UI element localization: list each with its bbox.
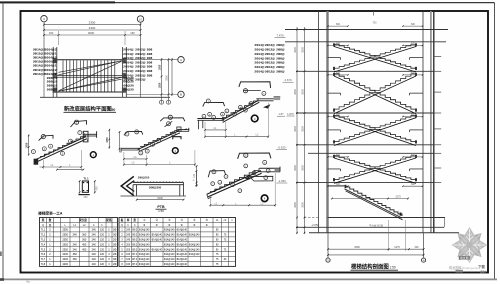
svg-text:Φ7.4: Φ7.4 [132, 263, 138, 266]
detail D1 start circle [31, 150, 35, 154]
detail D3 left leader circle [206, 99, 210, 103]
svg-text:Φ14@140: Φ14@140 [151, 234, 162, 237]
section right wall stubs [434, 56, 441, 58]
section landing line bottom [328, 217, 446, 219]
detail D2 mid leader bar [165, 121, 173, 127]
svg-text:1650: 1650 [106, 137, 109, 143]
svg-text:600: 600 [411, 183, 416, 186]
detail D2 top leader circle [168, 115, 172, 119]
table1 grid [40, 218, 118, 267]
detail D4 under-landing wedge [249, 176, 273, 181]
detail D2 bar circles [139, 151, 143, 155]
svg-text:2800: 2800 [294, 89, 297, 95]
section floor line level 4a [296, 144, 434, 146]
beam section TL rect [82, 181, 88, 192]
plan treads [62, 60, 64, 91]
detail D3 landing beam stub gray [274, 97, 281, 100]
svg-text:2800: 2800 [294, 202, 297, 208]
svg-text:120: 120 [100, 258, 105, 261]
svg-text:120: 120 [100, 253, 105, 256]
outer border bottom gray strip [0, 278, 497, 280]
detail D2 landing beam rect [177, 127, 181, 131]
detail D3 second leader bar [243, 90, 261, 92]
svg-text:Φ14@140: Φ14@140 [164, 253, 175, 256]
svg-text:2Φ12@: 2Φ12@ [135, 78, 145, 82]
PTB bottom line [121, 195, 187, 197]
svg-text:Φ: Φ [181, 224, 183, 227]
detail D2 top landing slab [177, 129, 189, 131]
svg-text:Φ14@140: Φ14@140 [139, 239, 150, 242]
section tread dim stub right [403, 116, 423, 118]
detail D1 top leader bar [71, 121, 87, 127]
plan right dim small circle b [167, 100, 171, 104]
svg-text:梁长度: 梁长度 [78, 218, 87, 222]
svg-text:1:50: 1:50 [109, 108, 116, 112]
section floor line level 1 [285, 29, 448, 31]
detail D4 bold detail circle [261, 195, 268, 202]
plan column blocks [53, 58, 58, 63]
svg-text:3300: 3300 [89, 21, 96, 25]
section tread dim stub left [328, 25, 348, 27]
svg-text:120: 120 [100, 239, 105, 242]
section grid extension left [327, 233, 329, 258]
svg-text:600: 600 [336, 23, 341, 26]
svg-text:2800: 2800 [301, 47, 304, 53]
section bottom long flight sawtooth [346, 187, 402, 216]
detail D4 wedge arrowhead [245, 177, 250, 180]
svg-text:240: 240 [92, 239, 97, 242]
section ground line a [296, 226, 444, 228]
plan right vertical dim line c [171, 58, 173, 96]
svg-text:340: 340 [415, 246, 420, 249]
detail D2 left vertical dim [119, 132, 121, 153]
detail D2 dim line long [124, 164, 195, 166]
detail D4 left leader circle [212, 170, 216, 174]
detail D2 dim extensions [123, 152, 125, 166]
svg-text:240: 240 [92, 243, 97, 246]
section tread dim stub left [328, 74, 348, 76]
svg-text:600: 600 [336, 42, 341, 45]
section stair flight storey4 down-left [334, 156, 416, 181]
svg-text:Φ14@140: Φ14@140 [189, 234, 200, 237]
detail D3 dim line long [205, 136, 268, 138]
svg-text:Φ14@140: Φ14@140 [139, 243, 150, 246]
detail D3 dim extensions [204, 122, 206, 138]
svg-text:3Φ: 3Φ [113, 243, 116, 246]
detail D4 top leader bar [238, 153, 271, 159]
plan dim extension line a [58, 31, 60, 45]
detail D1 landing beam [83, 131, 88, 142]
svg-text:600: 600 [411, 23, 416, 26]
detail D3 cut arrowhead [263, 104, 270, 108]
PTB right support [179, 185, 181, 196]
svg-text:360: 360 [73, 258, 78, 261]
svg-text:Φ14@140: Φ14@140 [164, 234, 175, 237]
outer border right [494, 3, 496, 279]
svg-text:240: 240 [73, 243, 78, 246]
svg-text:3Φ: 3Φ [113, 229, 116, 232]
detail D3 left landing supports [198, 120, 200, 129]
detail D2 flight sawtooth [140, 129, 179, 147]
plan dimension line 1 [44, 24, 141, 26]
beam section TL right dim [94, 181, 96, 193]
svg-text:2550: 2550 [62, 248, 68, 251]
svg-text:Φ14@140: Φ14@140 [176, 234, 187, 237]
section top tick [373, 11, 375, 16]
svg-text:Φ14@140: Φ14@140 [176, 248, 187, 251]
detail D4 dim extensions [209, 198, 211, 207]
svg-text:2Φ8@200: 2Φ8@200 [138, 177, 150, 180]
detail D3 left landing slab [197, 118, 224, 120]
beam section TL bottom dim [79, 194, 90, 196]
svg-text:150: 150 [49, 31, 54, 35]
svg-text:120: 120 [100, 248, 105, 251]
svg-text:楼梯结构剖面图: 楼梯结构剖面图 [351, 262, 389, 270]
svg-text:Φ14@140: Φ14@140 [164, 248, 175, 251]
svg-text:3Φ: 3Φ [113, 234, 116, 237]
section flight storey1 end hooks [333, 43, 335, 46]
svg-text:TL1: TL1 [83, 176, 89, 180]
svg-text:Φ14@140: Φ14@140 [164, 229, 175, 232]
section ground line b [309, 232, 459, 234]
detail D1 bar circles [42, 147, 46, 151]
section stair flight storey4 down-right [334, 156, 416, 181]
svg-text:2Φ8@2: 2Φ8@2 [47, 88, 58, 92]
section tread dim stub right [403, 74, 423, 76]
svg-text:1650: 1650 [372, 57, 378, 60]
plan break diagonal upper 2 [59, 62, 119, 73]
svg-text:Φ14@140: Φ14@140 [189, 248, 200, 251]
svg-text:3300: 3300 [157, 196, 163, 200]
svg-text:240: 240 [73, 234, 78, 237]
plan grid line right [140, 22, 142, 97]
svg-text:Φ14@140: Φ14@140 [164, 258, 175, 261]
detail D4 left vertical dim [195, 171, 197, 186]
detail D3 bold detail circle [251, 115, 258, 122]
svg-text:240: 240 [92, 234, 97, 237]
svg-text:1275: 1275 [395, 196, 401, 199]
plan break diagonal lower 2 [62, 79, 122, 90]
svg-text:Φ14@140: Φ14@140 [164, 243, 175, 246]
section tread dim stub left [328, 185, 348, 187]
section title underline [351, 269, 399, 271]
svg-text:Φ14@140: Φ14@140 [176, 253, 187, 256]
svg-text:TL8: TL8 [41, 263, 46, 266]
detail D3 top landing slab [256, 98, 273, 100]
section bottom flight hooks [345, 185, 347, 188]
section tread dim stub left [328, 116, 348, 118]
detail D1 landing end hook [96, 131, 98, 138]
detail D1 top leader circle [75, 120, 79, 124]
detail D2 left leader bar [124, 131, 143, 135]
section tread dim stub right [403, 156, 423, 158]
detail D1 left leader circle [41, 135, 45, 139]
svg-text:600: 600 [411, 72, 416, 75]
detail D1 left leader bar [39, 135, 53, 140]
plan dim extension line b [124, 31, 126, 45]
svg-text:Φ: Φ [143, 224, 145, 227]
svg-text:Φ14@140: Φ14@140 [139, 263, 150, 266]
plan break diagonal upper 1 [59, 61, 122, 75]
plan right vertical dim line a [161, 58, 163, 104]
detail D2 landing end hook [188, 128, 190, 132]
svg-text:Φ14@140: Φ14@140 [176, 229, 187, 232]
PTB title underline [156, 208, 167, 210]
svg-text:3000: 3000 [88, 31, 95, 35]
plan stairwell middle lines [57, 75, 123, 77]
detail D2 mid leader circle [167, 122, 171, 126]
svg-text:3Φ8@200: 3Φ8@200 [149, 186, 162, 190]
section mid landing lines storey2 [328, 92, 341, 94]
detail D3 leader circle b [262, 91, 266, 95]
section stair flight storey3 down-left [334, 116, 416, 144]
plan dimension line 2 [44, 29, 141, 31]
svg-text:厚: 厚 [127, 218, 130, 222]
plan grid line A to bubble [127, 59, 178, 61]
plan grid bubble A [178, 57, 184, 63]
svg-text:A: A [180, 58, 182, 62]
svg-text:2550: 2550 [357, 196, 363, 199]
svg-text:240: 240 [92, 248, 97, 251]
section bottom flight start landing [328, 185, 347, 187]
svg-text:Φ14@140: Φ14@140 [139, 258, 150, 261]
svg-text:Φ: Φ [168, 224, 170, 227]
svg-text:240: 240 [92, 258, 97, 261]
svg-text:Φ14@140: Φ14@140 [164, 239, 175, 242]
svg-text:150: 150 [130, 31, 135, 35]
plan left wall lines [52, 47, 54, 97]
section floor line level 4b [308, 152, 434, 154]
beam section TL corner bars [83, 182, 84, 183]
plan break diagonal lower 1 [59, 77, 122, 91]
svg-text:Φ14@140: Φ14@140 [189, 243, 200, 246]
svg-text:240: 240 [92, 263, 97, 266]
svg-text:3Φ: 3Φ [113, 248, 116, 251]
svg-text:Φ9.2: Φ9.2 [132, 248, 138, 251]
detail D4 top landing slab [260, 167, 281, 169]
svg-text:120: 120 [100, 229, 105, 232]
detail D4 landing end hook [279, 167, 281, 172]
section mid landing lines storey4 [328, 168, 341, 170]
svg-text:600: 600 [411, 114, 416, 117]
svg-text:450: 450 [82, 243, 87, 246]
svg-text:400: 400 [96, 186, 99, 191]
svg-text:360: 360 [73, 253, 78, 256]
svg-text:Φ14@140: Φ14@140 [139, 234, 150, 237]
svg-text:2550: 2550 [62, 243, 68, 246]
detail D1 flight stringer [36, 137, 86, 160]
detail D4 flight stringer [207, 171, 261, 195]
section stair flight storey2 down-left [334, 74, 416, 112]
PTB break arrow outer [121, 176, 134, 195]
svg-text:Φ14@140: Φ14@140 [176, 243, 187, 246]
svg-text:TL2: TL2 [41, 234, 46, 237]
rebar hook symbol below D2 landing [173, 137, 181, 140]
section roof stub line [285, 41, 446, 43]
plan grid line left [43, 22, 45, 97]
svg-text:2800: 2800 [294, 47, 297, 53]
svg-text:Φ9.2: Φ9.2 [132, 229, 138, 232]
PTB slab top line [133, 181, 184, 183]
section stair flight storey1 down-left [334, 44, 416, 70]
section grid extension right [423, 233, 425, 258]
svg-text:Φ9.2: Φ9.2 [132, 239, 138, 242]
section left wall inner line [318, 11, 320, 233]
svg-text:板: 板 [121, 218, 124, 222]
section mid landing lines storey3 [328, 129, 341, 131]
section floor line level 5 [296, 182, 434, 184]
plan slab top edge [53, 59, 127, 61]
detail D1 flight sawtooth [40, 135, 85, 157]
detail D2 landing arrowhead [184, 128, 187, 129]
svg-text:宽: 宽 [132, 218, 136, 222]
svg-text:3250: 3250 [354, 246, 360, 249]
section flight storey3 end hooks [333, 115, 335, 118]
svg-text:6a: 6a [26, 280, 30, 284]
svg-text:2Φ: 2Φ [113, 253, 116, 256]
plan right wall lines [122, 47, 124, 97]
svg-text:2Φ12@: 2Φ12@ [265, 69, 275, 73]
svg-text:360: 360 [82, 239, 87, 242]
detail D2 left leader circles [125, 132, 129, 136]
svg-text:2800: 2800 [301, 202, 304, 208]
svg-text:120: 120 [193, 173, 196, 178]
svg-text:2550: 2550 [62, 234, 68, 237]
detail D1 top landing slab [84, 133, 98, 135]
svg-text:3300: 3300 [89, 26, 96, 30]
detail D3 big top leader bar [239, 82, 271, 88]
section floor line level 3 [296, 112, 434, 114]
svg-text:Φ14@140: Φ14@140 [151, 239, 162, 242]
svg-text:120: 120 [100, 234, 105, 237]
detail D1 left vertical dim [28, 135, 30, 156]
section left dim chain line b [304, 27, 306, 234]
svg-text:TL5: TL5 [41, 248, 46, 251]
svg-text:600: 600 [336, 72, 341, 75]
svg-text:zhulong.com: zhulong.com [462, 266, 480, 270]
svg-text:2800: 2800 [301, 165, 304, 171]
section stair flight storey2 down-right [334, 74, 416, 112]
detail D4 flight sawtooth [210, 168, 259, 192]
svg-text:4.670: 4.670 [285, 78, 292, 82]
sheet corner mark bottom-left [0, 278, 4, 281]
plan grid bubble 2 [137, 16, 143, 22]
svg-text:Φ14@140: Φ14@140 [151, 248, 162, 251]
detail D1 dim extension b [80, 150, 82, 171]
section tread dim stub left [328, 156, 348, 158]
plan right dim small circle a [160, 100, 164, 104]
svg-text:2Φ: 2Φ [113, 263, 116, 266]
svg-text:Φ14@140: Φ14@140 [189, 253, 200, 256]
section left dim chain ticks [296, 29, 298, 31]
svg-text:4200: 4200 [62, 258, 68, 261]
detail D4 dim line [210, 204, 275, 206]
svg-text:Φ14@140: Φ14@140 [176, 239, 187, 242]
plan slab bottom edge [53, 91, 127, 93]
svg-text:600: 600 [411, 154, 416, 157]
svg-text:7.470: 7.470 [277, 34, 284, 38]
plan dimension line 3 [44, 34, 141, 36]
svg-text:360: 360 [82, 234, 87, 237]
plan grid bubble 1 [41, 16, 47, 22]
svg-text:TL7: TL7 [41, 258, 46, 261]
svg-text:750: 750 [372, 22, 377, 25]
svg-text:1.870: 1.870 [287, 112, 294, 116]
svg-text:2800: 2800 [294, 165, 297, 171]
section interior dim extensions [388, 220, 390, 251]
detail D2 top leader bar [160, 118, 185, 121]
detail D3 left leader bar [203, 103, 225, 107]
svg-text:120: 120 [100, 243, 105, 246]
PTB dim line [137, 199, 184, 201]
svg-text:2Φ8: 2Φ8 [147, 73, 153, 77]
svg-text:Φ14@140: Φ14@140 [139, 229, 150, 232]
section tread dim stub right [403, 44, 423, 46]
detail D1 dim extension a [42, 160, 44, 169]
svg-text:Φ7.4: Φ7.4 [132, 253, 138, 256]
plan grid bubble B [178, 91, 184, 97]
detail D2 bold detail circle [172, 148, 178, 154]
outer border top [0, 2, 495, 4]
detail D1 dimension line [40, 166, 82, 168]
svg-text:Φ14@140: Φ14@140 [176, 258, 187, 261]
detail D1 dimension line 2 [57, 169, 83, 171]
svg-text:3300: 3300 [165, 75, 168, 81]
svg-text:240: 240 [92, 229, 97, 232]
detail D2 flight stringer [138, 131, 180, 150]
section bottom dimension line [328, 248, 424, 250]
svg-text:Φ14@140: Φ14@140 [176, 263, 187, 266]
plan right vertical dim line b [168, 58, 170, 104]
svg-text:Φ14@140: Φ14@140 [139, 253, 150, 256]
svg-text:1.87: 1.87 [278, 112, 284, 116]
detail D4 bar circles [211, 182, 215, 186]
svg-text:梁: 梁 [41, 218, 45, 222]
detail D3 leader circle a [243, 89, 247, 93]
detail D3 flight stringer [221, 100, 258, 120]
svg-text:Φ14@140: Φ14@140 [139, 248, 150, 251]
svg-text:450: 450 [82, 248, 87, 251]
svg-text:TL4: TL4 [41, 243, 46, 246]
svg-text:1:50: 1:50 [390, 266, 396, 270]
plan lower long wall line [40, 96, 170, 98]
svg-text:Φ14@140: Φ14@140 [164, 263, 175, 266]
PTB left support [132, 185, 134, 196]
svg-text:240: 240 [73, 248, 78, 251]
section flight storey4 end hooks [333, 155, 335, 158]
svg-text:素材: 素材 [479, 269, 486, 274]
svg-text:3Φ: 3Φ [113, 258, 116, 261]
svg-text:2Φ14@: 2Φ14@ [254, 69, 264, 73]
left edge mark [0, 252, 2, 257]
svg-text:600: 600 [411, 42, 416, 45]
svg-text:2550: 2550 [62, 229, 68, 232]
svg-text:TL6: TL6 [41, 253, 46, 256]
detail D2 left landing slab [121, 147, 140, 149]
section bottom dimension line 2 [328, 254, 424, 256]
section floor line level 2 [296, 70, 434, 72]
svg-text:600: 600 [336, 114, 341, 117]
plan break diagonal long [59, 61, 122, 91]
detail D4 flight bottom tip [207, 194, 212, 198]
watermark center text bar [459, 256, 470, 260]
svg-text:1650: 1650 [372, 92, 378, 95]
svg-text:Φ8@20: Φ8@20 [123, 88, 134, 92]
watermark pinwheel [452, 227, 488, 263]
section grid bubble left [326, 258, 330, 262]
detail D3 bar circles [202, 114, 206, 118]
svg-text:2Φ: 2Φ [113, 239, 116, 242]
